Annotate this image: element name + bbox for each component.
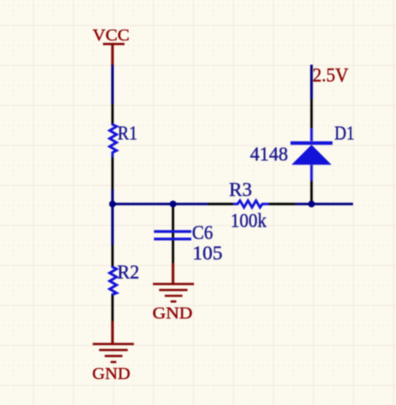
svg-text:D1: D1 [335, 123, 355, 145]
svg-text:4148: 4148 [250, 144, 288, 166]
svg-text:VCC: VCC [93, 25, 130, 44]
svg-text:105: 105 [193, 242, 223, 264]
svg-text:R2: R2 [117, 262, 139, 284]
svg-text:100k: 100k [231, 210, 267, 232]
svg-text:2.5V: 2.5V [313, 64, 349, 86]
svg-text:GND: GND [153, 304, 193, 323]
svg-text:R3: R3 [229, 179, 252, 201]
svg-text:R1: R1 [118, 122, 138, 144]
svg-text:C6: C6 [192, 222, 213, 244]
svg-text:GND: GND [92, 364, 130, 383]
